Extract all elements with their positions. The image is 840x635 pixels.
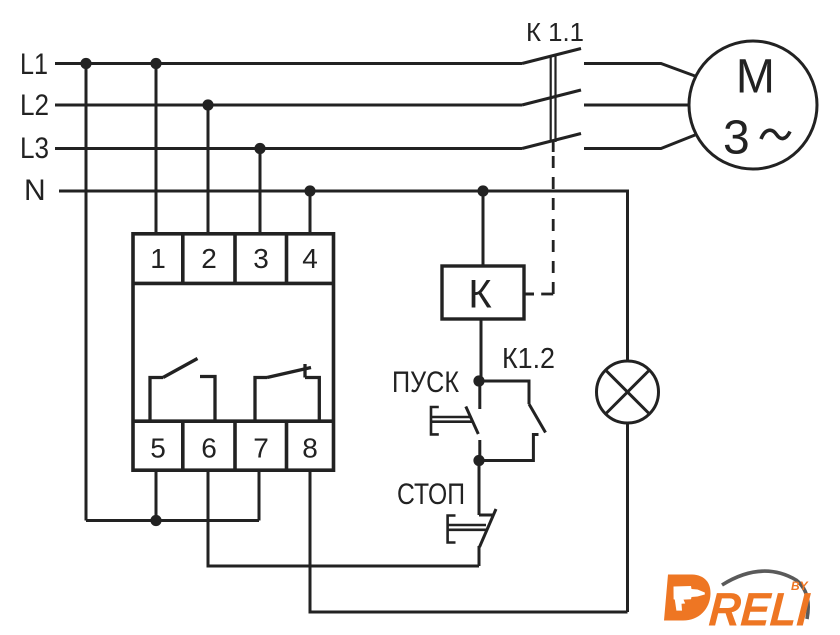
svg-text:СТОП: СТОП	[397, 478, 465, 511]
wire terminal 7 down	[258, 471, 261, 521]
wire motor lead L2	[584, 104, 690, 107]
motor tilde	[761, 130, 790, 139]
svg-text:L1: L1	[20, 48, 48, 81]
node L3 label	[20, 132, 49, 165]
logo drill silhouette	[674, 586, 705, 611]
wire motor lead L1	[584, 64, 695, 77]
wire L3 horizontal	[55, 147, 522, 150]
motor label 3~	[723, 112, 750, 165]
junction dot L2 to terminal 2	[202, 99, 213, 110]
pin 8 label	[302, 433, 318, 464]
wire from L3 to terminal 3	[259, 149, 262, 234]
svg-text:L2: L2	[20, 89, 49, 122]
internal relay contact right	[255, 378, 267, 422]
svg-text:К: К	[468, 273, 492, 317]
node L1 label	[20, 48, 48, 81]
contactor K1.1 linkage double bar	[550, 56, 552, 143]
stop button NC contact	[479, 514, 493, 517]
svg-text:М: М	[736, 51, 775, 104]
junction dot N to relay coil K	[477, 185, 488, 196]
contactor K1.1 blade L2	[522, 90, 581, 105]
terminal separator 5|6	[181, 421, 185, 470]
svg-text:7: 7	[253, 433, 269, 464]
junction dot PUSK top	[473, 375, 484, 386]
pin 4 label	[302, 243, 318, 274]
relay device outer box	[133, 234, 334, 470]
pin 6 label	[201, 433, 217, 464]
stop button actuator	[448, 516, 456, 543]
lamp circle	[597, 361, 659, 423]
logo Dreli	[664, 571, 812, 635]
wire bottom left horizontal	[86, 519, 259, 522]
terminal separator 1|2	[181, 234, 185, 284]
svg-text:6: 6	[201, 433, 217, 464]
svg-text:К1.2: К1.2	[502, 343, 555, 375]
logo letter D	[664, 575, 711, 621]
label K1.2	[502, 343, 555, 375]
logo swoosh	[722, 571, 808, 619]
terminal separator 2|3	[233, 234, 237, 284]
label PUSK	[392, 366, 459, 399]
motor label M	[736, 51, 775, 104]
coil stub	[524, 293, 534, 296]
wire N horizontal	[59, 191, 628, 362]
wire from L1 to terminal 1	[155, 64, 158, 234]
terminal row top separator line	[133, 282, 334, 286]
junction dot L1 to terminal 1	[150, 58, 161, 69]
motor M circle	[689, 41, 817, 169]
wire from N to terminal 4	[309, 191, 312, 233]
node N label	[24, 174, 46, 207]
svg-text:N: N	[24, 174, 46, 207]
svg-text:ПУСК: ПУСК	[392, 366, 459, 399]
junction dot N to terminal 4	[304, 185, 315, 196]
wire lamp down	[626, 423, 629, 612]
junction dot L1 left	[80, 58, 91, 69]
wire PUSK to STOP	[478, 461, 481, 516]
svg-text:2: 2	[201, 243, 217, 274]
wire from N to coil K	[482, 191, 485, 266]
linkage dashed vertical to coil	[552, 156, 555, 294]
auxiliary contact K1.2 branch	[479, 381, 529, 404]
push button PUSK actuator	[431, 407, 439, 434]
wire L2 horizontal	[55, 104, 522, 107]
terminal separator 6|7	[233, 421, 237, 470]
terminal separator 7|8	[285, 421, 289, 470]
label STOP	[397, 478, 465, 511]
svg-text:3: 3	[723, 112, 750, 165]
svg-text:BY: BY	[791, 579, 809, 593]
contactor K1.1 blade L1	[522, 49, 581, 64]
svg-text:5: 5	[150, 433, 166, 464]
contactor K1.1 blade L3	[522, 134, 581, 149]
junction dot terminal 5 wire	[150, 515, 161, 526]
label K1.1	[526, 17, 584, 47]
pin 1 label	[150, 243, 166, 274]
svg-text:L3: L3	[20, 132, 49, 165]
svg-text:3: 3	[253, 243, 269, 274]
wire L1 horizontal	[55, 62, 522, 65]
lamp cross	[606, 371, 649, 414]
terminal row bottom separator line	[133, 419, 334, 423]
wire motor lead L3	[584, 135, 695, 149]
junction dot L3 to terminal 3	[254, 143, 265, 154]
internal relay contact left	[150, 378, 163, 422]
linkage dashed horizontal to coil	[533, 293, 553, 296]
junction dot PUSK bottom	[473, 455, 484, 466]
pin 3 label	[253, 243, 269, 274]
logo text RELI	[707, 583, 812, 635]
logo text BY	[791, 579, 809, 593]
wire terminal 8 down	[310, 471, 628, 613]
svg-text:8: 8	[302, 433, 318, 464]
wire terminal 5 down	[155, 471, 158, 521]
push button PUSK contact	[478, 381, 481, 409]
svg-text:4: 4	[302, 243, 318, 274]
wire coil K to PUSK	[480, 319, 483, 381]
coil label K	[468, 273, 492, 317]
wire from L2 to terminal 2	[207, 105, 210, 233]
svg-text:К 1.1: К 1.1	[526, 17, 584, 47]
svg-text:1: 1	[150, 243, 166, 274]
pin 7 label	[253, 433, 269, 464]
relay coil K box	[442, 266, 524, 319]
pin 5 label	[150, 433, 166, 464]
wire left vertical from L1	[85, 64, 88, 521]
linkage stub solid	[552, 142, 555, 152]
wire terminal 6 down	[208, 471, 479, 567]
terminal separator 3|4	[285, 234, 289, 284]
pin 2 label	[201, 243, 217, 274]
node L2 label	[20, 89, 49, 122]
